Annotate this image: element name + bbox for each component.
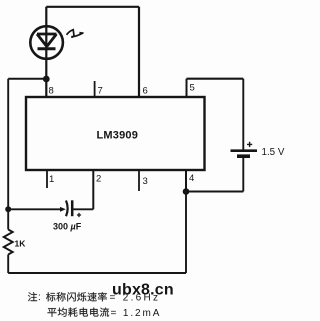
svg-text:1.5 V: 1.5 V — [262, 147, 285, 158]
wire pin 1 stub — [46, 171, 48, 189]
svg-text:6: 6 — [143, 86, 148, 97]
wire pin 3 stub — [138, 171, 140, 192]
LED D1 — [30, 26, 63, 59]
node A junction dot — [43, 76, 50, 83]
svg-text:LM3909: LM3909 — [97, 130, 139, 142]
svg-text:5: 5 — [190, 83, 195, 94]
wire left rail lower — [7, 255, 9, 274]
wire capacitor to pin 2 — [74, 208, 94, 210]
wire bottom rail — [8, 272, 186, 274]
wire left rail upper — [7, 79, 9, 230]
wire junction to left rail — [8, 78, 46, 80]
wire LED branch vertical (pin 8) — [45, 7, 47, 97]
svg-text:3: 3 — [143, 176, 148, 187]
resistor R1 — [4, 230, 13, 255]
svg-text:4: 4 — [189, 173, 194, 184]
svg-text:8: 8 — [49, 86, 54, 97]
wire battery lower vertical — [242, 158, 244, 192]
svg-text:2: 2 — [96, 174, 101, 185]
battery plus sign — [247, 142, 252, 147]
svg-text:ubx8.cn: ubx8.cn — [112, 282, 174, 299]
capacitor C1 plates — [66, 201, 68, 217]
svg-text:1K: 1K — [15, 239, 27, 249]
wire vertical to pin 6 — [138, 7, 140, 97]
node B junction dot — [183, 188, 190, 195]
svg-text:7: 7 — [98, 86, 103, 97]
svg-text:1: 1 — [49, 174, 54, 185]
wire pin 2 stub — [92, 171, 94, 210]
wire battery upper vertical — [242, 79, 244, 150]
svg-text::: : — [38, 292, 41, 303]
battery B1 1.5V — [237, 154, 250, 158]
wire junction to battery negative — [186, 191, 243, 193]
node C junction dot — [5, 206, 11, 212]
wire pin 4 stub — [185, 171, 187, 192]
wire right lower vertical — [185, 192, 187, 274]
svg-text:300 µF: 300 µF — [53, 222, 82, 232]
wire battery top to pin 5 — [187, 78, 244, 80]
svg-text:= 1.2mA: = 1.2mA — [111, 308, 162, 319]
note text line 2 — [48, 308, 110, 317]
wire pin 5 stub — [186, 79, 188, 97]
IC U1 LM3909 — [26, 97, 205, 170]
capacitor C1 arrowhead — [60, 207, 66, 212]
wire junction to capacitor — [8, 208, 61, 210]
wire top rail — [46, 6, 139, 8]
wire pin 7 stub — [94, 81, 96, 97]
note text line 1 — [28, 292, 107, 301]
LED light arrow squiggle — [67, 30, 84, 38]
capacitor plus sign — [77, 213, 81, 217]
